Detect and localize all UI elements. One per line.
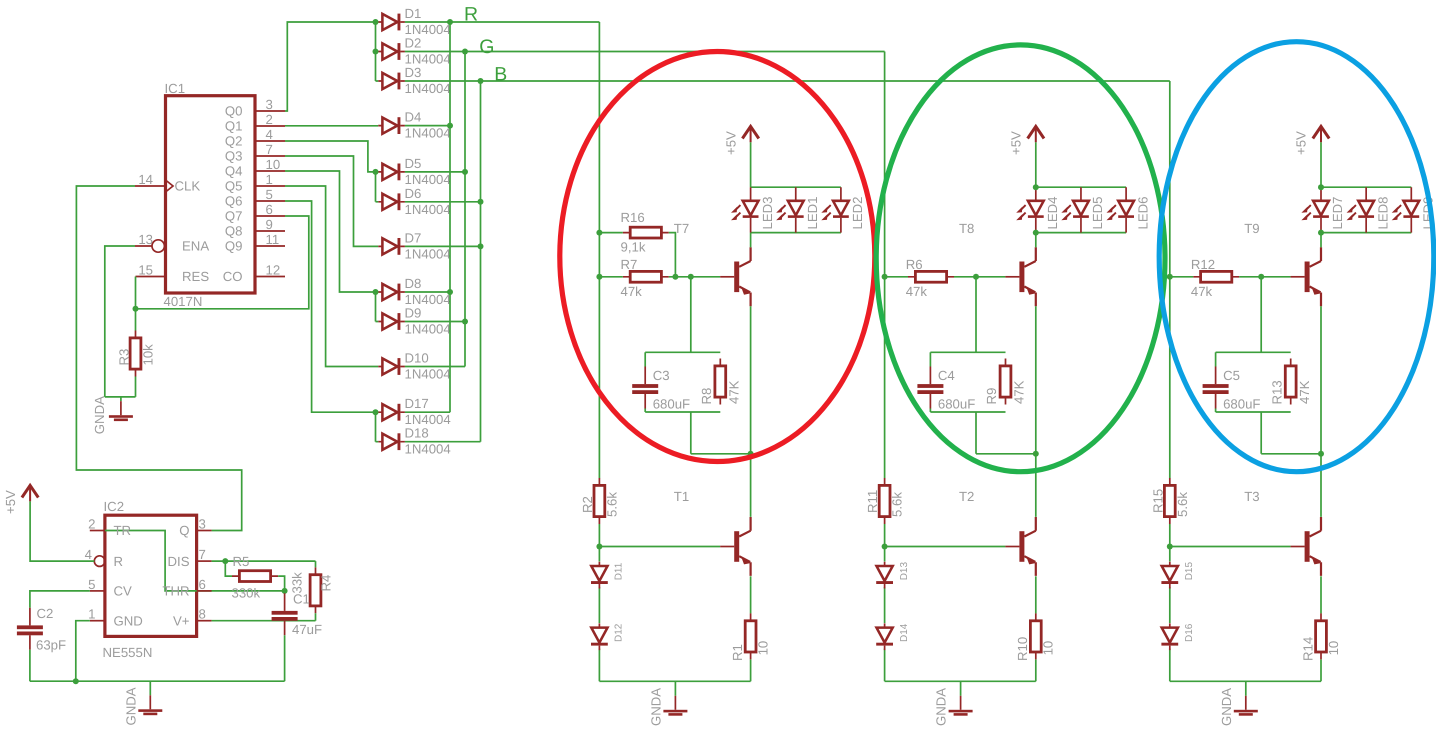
svg-text:Q2: Q2 — [225, 134, 243, 149]
svg-text:GNDA: GNDA — [1219, 688, 1234, 726]
node base-2 junction — [596, 544, 602, 550]
svg-text:C2: C2 — [37, 606, 54, 621]
svg-text:R4: R4 — [319, 575, 334, 592]
wire emitter to R1 — [750, 576, 752, 613]
wire R16 left — [599, 232, 622, 234]
svg-text:10k: 10k — [141, 344, 156, 366]
resistor R13 47K — [1290, 359, 1292, 405]
svg-text:C5: C5 — [1223, 368, 1240, 383]
svg-text:D18: D18 — [405, 426, 429, 441]
node G bus junctions — [462, 49, 468, 55]
+5V supply arrow — [742, 126, 758, 142]
resistor R3 10k — [135, 331, 137, 377]
wire ENA to ground — [105, 246, 135, 397]
svg-text:330k: 330k — [232, 586, 261, 601]
svg-text:47K: 47K — [1012, 380, 1027, 404]
diode D14 — [876, 623, 893, 650]
svg-text:R11: R11 — [865, 490, 880, 513]
svg-text:R7: R7 — [621, 257, 638, 272]
svg-text:7: 7 — [199, 547, 206, 562]
wire C-network bottom rail — [645, 409, 720, 413]
svg-text:CO: CO — [223, 269, 243, 284]
svg-text:R14: R14 — [1300, 637, 1315, 661]
svg-text:IC2: IC2 — [104, 499, 125, 514]
resistor R2 5.6k — [598, 478, 600, 524]
LED LED3 — [731, 187, 759, 232]
svg-text:D3: D3 — [405, 65, 422, 80]
wire Q5 to D10 anode — [285, 186, 378, 367]
svg-text:LED8: LED8 — [1375, 197, 1390, 230]
IC1 pin CO 12 — [255, 276, 285, 278]
svg-text:7: 7 — [266, 142, 273, 157]
wire GND pin to rail — [76, 621, 90, 682]
svg-text:IC1: IC1 — [165, 81, 186, 96]
wire R3 bottom to ENA/ground — [105, 377, 136, 397]
LED LED5 — [1061, 187, 1089, 232]
node emitter junction — [1033, 451, 1039, 457]
svg-text:+5V: +5V — [3, 490, 18, 514]
diode D8 1N4004 — [378, 284, 405, 301]
wire stage ground rail — [599, 680, 750, 682]
svg-text:680uF: 680uF — [938, 397, 975, 412]
svg-text:V+: V+ — [173, 613, 190, 628]
svg-text:R8: R8 — [699, 388, 714, 405]
diode D10 1N4004 — [378, 358, 405, 375]
svg-text:RES: RES — [182, 269, 209, 284]
node DIS junction — [222, 558, 228, 564]
wire D8-D9 anode chain — [376, 292, 379, 322]
node LED rail junctions — [1033, 184, 1039, 190]
svg-text:680uF: 680uF — [653, 397, 690, 412]
wire R12 left — [1170, 276, 1193, 278]
svg-text:6: 6 — [266, 202, 273, 217]
IC1 pin ENA 13 with inversion bubble — [135, 245, 152, 247]
svg-text:47K: 47K — [1297, 380, 1312, 404]
svg-text:10: 10 — [266, 157, 281, 172]
wire +5V to LED rail — [750, 142, 752, 187]
wire D8 cathode to R bus — [405, 291, 450, 293]
wire LED top rail — [1321, 186, 1411, 188]
svg-text:DIS: DIS — [168, 554, 190, 569]
wire D1-D2-D3 anode chain — [376, 22, 379, 81]
wire +5V to LED rail — [1035, 142, 1037, 187]
diode D15 — [1161, 562, 1178, 589]
svg-text:D14: D14 — [899, 623, 910, 642]
svg-text:GNDA: GNDA — [649, 688, 664, 726]
svg-text:T7: T7 — [674, 221, 689, 236]
svg-text:D7: D7 — [405, 230, 422, 245]
wire LED bottom rail — [751, 232, 841, 234]
wire C-network drop — [1260, 277, 1262, 353]
svg-text:47k: 47k — [621, 284, 643, 299]
svg-text:33k: 33k — [290, 572, 305, 594]
IC2 pin THR 6 — [197, 590, 212, 592]
wire C-network drop — [975, 277, 977, 353]
IC2 pin GND 1 — [90, 620, 105, 622]
node R bus junctions — [447, 19, 453, 25]
node D2 anode junction — [373, 49, 379, 55]
svg-text:R1: R1 — [730, 644, 745, 661]
wire R3 top — [135, 309, 137, 331]
wire base-2 row — [599, 546, 720, 548]
diode D2 1N4004 — [378, 43, 405, 60]
diode D6 1N4004 — [378, 193, 405, 210]
+5V supply arrow — [1028, 126, 1044, 142]
wire net vertical into stage (T7) — [598, 22, 600, 681]
node base-2 junction — [882, 544, 888, 550]
svg-text:Q0: Q0 — [225, 104, 243, 119]
svg-text:47K: 47K — [727, 380, 742, 404]
LED LED8 — [1347, 187, 1375, 232]
wire net G to stage 2 — [465, 51, 885, 53]
wire D1 cathode to R bus — [405, 21, 450, 23]
svg-text:LED2: LED2 — [850, 197, 865, 230]
svg-text:R13: R13 — [1269, 380, 1284, 404]
wire D5-D6 anode chain — [376, 172, 379, 202]
wire D6 cathode to B bus — [405, 201, 481, 203]
wire D17 cathode to R bus — [405, 411, 450, 413]
svg-text:THR: THR — [162, 584, 189, 599]
svg-text:ENA: ENA — [182, 239, 209, 254]
svg-text:4: 4 — [266, 127, 273, 142]
capacitor C4 680uF — [929, 352, 931, 366]
wire Q6 to D17/D18 anodes — [285, 201, 378, 412]
svg-text:Q6: Q6 — [225, 194, 243, 209]
svg-text:T3: T3 — [1244, 489, 1259, 504]
svg-text:T9: T9 — [1244, 221, 1259, 236]
resistor R9 47K — [1005, 359, 1007, 405]
wire C-network top rail — [1216, 351, 1291, 353]
svg-text:Q9: Q9 — [225, 239, 243, 254]
svg-text:1N4004: 1N4004 — [405, 202, 451, 217]
node base-2 junction — [1167, 544, 1173, 550]
diode D3 1N4004 — [378, 73, 405, 90]
resistor R10 10 — [1035, 613, 1037, 659]
diode D18 1N4004 — [378, 433, 405, 450]
resistor R6 47k — [908, 276, 954, 278]
resistor R4 33k — [315, 567, 317, 613]
svg-text:1: 1 — [88, 607, 95, 622]
wire net R to stage 1 — [450, 21, 599, 23]
IC IC2 NE555N box — [105, 515, 197, 636]
svg-text:LED4: LED4 — [1045, 197, 1060, 230]
IC2 pin CV 5 — [90, 590, 105, 592]
svg-text:CLK: CLK — [175, 179, 201, 194]
node ground rail junction — [73, 678, 79, 684]
svg-text:47k: 47k — [906, 284, 928, 299]
svg-text:LED6: LED6 — [1135, 197, 1150, 230]
LED LED6 — [1107, 187, 1135, 232]
IC2 pin DIS 7 — [197, 560, 212, 562]
svg-text:14: 14 — [138, 172, 153, 187]
wire base-2 row — [885, 546, 1006, 548]
wire R bus vertical — [449, 22, 451, 412]
LED LED1 — [776, 187, 804, 232]
node R16 junctions — [596, 230, 602, 236]
diode D16 — [1161, 623, 1178, 650]
svg-text:12: 12 — [266, 263, 281, 278]
svg-text:R2: R2 — [580, 496, 595, 513]
node stage input junction — [1167, 274, 1173, 280]
wire CLK from 555 output — [76, 186, 241, 531]
node emitter junction — [1318, 451, 1324, 457]
ground GNDA (555) — [149, 681, 151, 695]
svg-text:B: B — [494, 64, 507, 86]
transistor T8 (top) — [1005, 247, 1035, 306]
node C-network drop junction — [973, 274, 979, 280]
wire R5 to THR node — [278, 576, 285, 591]
wire R16 to base node — [669, 233, 676, 277]
svg-text:4017N: 4017N — [164, 294, 203, 309]
svg-text:5.6k: 5.6k — [605, 492, 620, 517]
svg-text:47k: 47k — [1191, 284, 1213, 299]
svg-text:11: 11 — [266, 232, 280, 247]
IC IC1 4017N box — [166, 96, 256, 293]
svg-text:R5: R5 — [233, 554, 250, 569]
IC2 pin V+ 8 — [197, 620, 212, 622]
wire C-network bottom rail — [1216, 409, 1291, 413]
green ellipse (G channel) — [876, 45, 1165, 472]
svg-text:C1: C1 — [293, 592, 310, 607]
svg-text:GNDA: GNDA — [123, 687, 138, 725]
svg-text:Q7: Q7 — [225, 209, 243, 224]
svg-text:1N4004: 1N4004 — [405, 322, 451, 337]
IC1 pin CLK 14 — [135, 185, 166, 187]
wire RES pin down to R3 — [135, 277, 137, 309]
ground GNDA (stage) — [674, 681, 676, 696]
wire D10 cathode to G bus — [405, 366, 465, 368]
wire C-network to emitter node — [1261, 412, 1321, 454]
wire C-network to emitter node — [691, 412, 751, 454]
svg-text:1N4004: 1N4004 — [405, 126, 451, 141]
svg-text:Q1: Q1 — [225, 119, 243, 134]
resistor R5 330k — [225, 561, 232, 576]
svg-text:R6: R6 — [906, 257, 923, 272]
svg-text:D1: D1 — [405, 6, 422, 21]
svg-text:9: 9 — [266, 217, 273, 232]
resistor R11 5.6k — [884, 478, 886, 524]
wire D18 cathode to B bus — [405, 441, 481, 443]
svg-text:LED7: LED7 — [1330, 197, 1345, 230]
wire C1 to ground rail — [284, 635, 286, 681]
wire base-2 row — [1170, 546, 1291, 548]
svg-text:GND: GND — [114, 613, 143, 628]
wire LED top rail — [751, 186, 841, 188]
svg-text:15: 15 — [138, 263, 153, 278]
+5V supply (555 reset) — [30, 501, 94, 561]
node C-network drop junction — [688, 274, 694, 280]
diode D1 1N4004 — [378, 14, 405, 31]
svg-text:D12: D12 — [614, 623, 625, 642]
wire Q3 to D7 anode — [285, 156, 378, 246]
wire C-network drop — [690, 277, 692, 353]
wire V+ row — [212, 620, 316, 622]
svg-text:T8: T8 — [959, 221, 974, 236]
node stage input junction — [596, 274, 602, 280]
wire D9 cathode to G bus — [405, 321, 465, 323]
IC2 pin Q 3 — [197, 530, 212, 532]
svg-text:6: 6 — [199, 577, 206, 592]
svg-text:10: 10 — [1326, 641, 1341, 656]
wire LED bottom rail — [1036, 232, 1126, 234]
transistor T9 (top) — [1291, 247, 1321, 306]
svg-text:D10: D10 — [405, 351, 429, 366]
IC2 pin R 4 — [94, 556, 105, 567]
IC1 clock input triangle — [166, 180, 174, 192]
wire Q2 to D5/D6 anodes — [285, 141, 378, 172]
resistor R16 9,1k — [623, 232, 669, 234]
node stage input junction — [882, 274, 888, 280]
wire D4 cathode to R bus — [405, 125, 450, 127]
blue ellipse (B channel) — [1159, 42, 1434, 472]
wire LED rail to collector — [1320, 233, 1322, 248]
svg-text:T2: T2 — [959, 489, 974, 504]
wire emitter to R10 — [1035, 576, 1037, 613]
wire stage ground rail — [885, 680, 1036, 682]
wire +5V to LED rail — [1320, 142, 1322, 187]
svg-text:13: 13 — [138, 232, 153, 247]
wire C-network top rail — [645, 351, 720, 353]
svg-text:1: 1 — [266, 172, 273, 187]
wire LED bottom rail — [1321, 232, 1411, 234]
wire D5 cathode to G bus — [405, 171, 465, 173]
svg-text:D4: D4 — [405, 110, 422, 125]
ground GNDA (R3) — [120, 397, 122, 401]
node R3 top junction — [133, 306, 139, 312]
svg-text:Q5: Q5 — [225, 179, 243, 194]
wire net vertical into stage (T9) — [1169, 81, 1171, 681]
svg-text:Q8: Q8 — [225, 224, 243, 239]
LED LED7 — [1301, 187, 1329, 232]
LED LED9 — [1392, 187, 1420, 232]
resistor R7 47k — [623, 276, 669, 278]
svg-text:10: 10 — [1041, 641, 1056, 656]
svg-text:47uF: 47uF — [292, 622, 322, 637]
svg-text:1N4004: 1N4004 — [405, 172, 451, 187]
IC1 pin RES 15 — [136, 276, 166, 278]
wire R6 left — [885, 276, 908, 278]
svg-text:CV: CV — [114, 584, 133, 599]
wire D17-D18 anode chain — [376, 412, 379, 442]
svg-text:R10: R10 — [1015, 637, 1030, 661]
svg-text:4: 4 — [85, 547, 92, 562]
wire R to rail — [1320, 660, 1322, 682]
diode D5 1N4004 — [378, 164, 405, 181]
LED LED2 — [821, 187, 849, 232]
svg-text:D9: D9 — [405, 306, 422, 321]
wire emitter down / collector chain — [1035, 306, 1037, 517]
svg-text:680uF: 680uF — [1223, 397, 1260, 412]
svg-text:1N4004: 1N4004 — [405, 367, 451, 382]
transistor T1 (bottom) — [720, 517, 750, 576]
svg-text:+5V: +5V — [723, 131, 738, 155]
wire D3 cathode to B bus — [405, 80, 481, 82]
svg-text:D11: D11 — [614, 562, 625, 580]
transistor T3 (bottom) — [1291, 517, 1321, 576]
capacitor C2 63pF — [30, 591, 90, 608]
IC2 pin TR 2 — [90, 530, 105, 532]
wire emitter down / collector chain — [750, 306, 752, 517]
transistor T7 (top) — [720, 247, 750, 306]
wire B bus vertical — [480, 81, 482, 442]
node D8 anode junction — [373, 289, 379, 295]
node D1 anode junction — [373, 19, 379, 25]
svg-text:R15: R15 — [1150, 489, 1165, 513]
node C-network drop junction — [1258, 274, 1264, 280]
svg-text:C4: C4 — [938, 368, 955, 383]
svg-text:1N4004: 1N4004 — [405, 81, 451, 96]
svg-text:D17: D17 — [405, 396, 429, 411]
resistor R8 47K — [719, 359, 721, 405]
capacitor C3 680uF — [644, 352, 646, 366]
+5V supply arrow — [1313, 126, 1329, 142]
ground GNDA (stage) — [960, 681, 962, 696]
wire net vertical into stage (T8) — [884, 52, 886, 682]
svg-text:R12: R12 — [1191, 257, 1215, 272]
resistor R12 47k — [1193, 276, 1239, 278]
wire C-network to emitter node — [976, 412, 1036, 454]
resistor R1 10 — [750, 613, 752, 659]
wire R to rail — [1035, 660, 1037, 682]
svg-text:5.6k: 5.6k — [1175, 492, 1190, 517]
diode D13 — [876, 562, 893, 589]
diode D12 — [591, 623, 608, 650]
capacitor C5 680uF — [1215, 352, 1217, 366]
resistor R14 10 — [1320, 613, 1322, 659]
svg-text:Q: Q — [179, 523, 189, 538]
node LED rail junctions — [1318, 184, 1324, 190]
svg-text:TR: TR — [114, 523, 132, 538]
svg-text:G: G — [479, 36, 494, 58]
svg-text:C3: C3 — [653, 368, 670, 383]
wire base row — [669, 276, 720, 278]
wire D2 cathode to G bus — [405, 51, 465, 53]
wire base row — [1239, 276, 1290, 278]
wire R to rail — [750, 660, 752, 682]
wire emitter down / collector chain — [1320, 306, 1322, 517]
svg-text:T1: T1 — [674, 489, 689, 504]
wire R4 top/bottom — [315, 561, 317, 621]
wire LED rail to collector — [750, 233, 752, 248]
svg-text:1N4004: 1N4004 — [405, 246, 451, 261]
svg-text:3: 3 — [199, 517, 206, 532]
svg-text:LED1: LED1 — [805, 197, 820, 230]
svg-text:10: 10 — [756, 641, 771, 656]
wire D7 cathode to B bus — [405, 245, 481, 247]
wire C-network top rail — [930, 351, 1005, 353]
svg-text:2: 2 — [266, 112, 273, 127]
svg-text:D6: D6 — [405, 186, 422, 201]
wire C-network bottom rail — [930, 409, 1005, 413]
svg-text:NE555N: NE555N — [103, 645, 153, 660]
wire net B to stage 3 — [481, 80, 1170, 82]
wire emitter to R14 — [1320, 576, 1322, 613]
node D5 anode junction — [373, 169, 379, 175]
diode D9 1N4004 — [378, 313, 405, 330]
svg-text:R3: R3 — [117, 349, 132, 366]
svg-text:5: 5 — [88, 577, 95, 592]
IC1 right-side pins Q0-Q9 — [255, 110, 285, 112]
transistor T2 (bottom) — [1005, 517, 1035, 576]
svg-text:Q4: Q4 — [225, 164, 243, 179]
svg-text:9,1k: 9,1k — [621, 240, 646, 255]
svg-text:2: 2 — [88, 517, 95, 532]
wire Q7 to RES/R3 node — [136, 216, 309, 309]
node emitter junction — [748, 451, 754, 457]
svg-text:R9: R9 — [984, 388, 999, 405]
diode D11 — [591, 562, 608, 589]
svg-text:1N4004: 1N4004 — [405, 442, 451, 457]
